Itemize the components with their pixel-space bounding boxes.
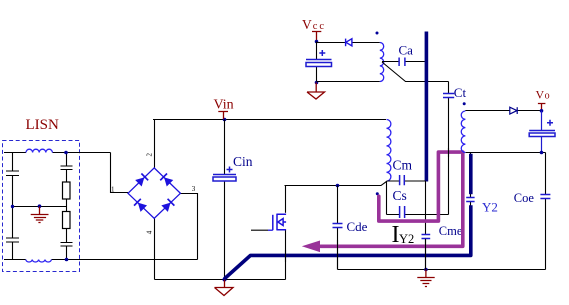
wire Cme branch lower overdraw bbox=[425, 239, 427, 270]
wire bridge right vertex to bottom bbox=[180, 194, 197, 260]
capacitor Coe bbox=[545, 153, 547, 270]
wire bridge top riser bbox=[154, 120, 156, 168]
svg-text:Y2: Y2 bbox=[482, 200, 498, 215]
diode D Vcc bbox=[346, 39, 352, 47]
node earth bbox=[424, 268, 428, 272]
tick Vo bbox=[538, 104, 546, 111]
capacitor Ct bbox=[443, 94, 454, 98]
wire MOSFET source riser bbox=[285, 230, 287, 279]
inductor LISN bottom bbox=[26, 260, 52, 263]
svg-text:Cm: Cm bbox=[393, 158, 413, 173]
capacitor Cin bbox=[213, 174, 236, 176]
wire Cm leads bbox=[387, 180, 426, 182]
transformer aux winding bbox=[380, 43, 384, 82]
wire Cm-Cs right node down to Cme bbox=[425, 181, 427, 270]
capacitor LISN right bottom bbox=[61, 243, 73, 247]
capacitor LISN right top bbox=[61, 166, 73, 170]
svg-text:1: 1 bbox=[111, 186, 115, 194]
arrowhead purple bbox=[302, 241, 320, 253]
node Vcc top bbox=[315, 40, 319, 44]
svg-text:4: 4 bbox=[146, 230, 154, 234]
wire MOSFET source riser overdraw bbox=[285, 250, 287, 262]
capacitor Cs bbox=[400, 206, 405, 218]
svg-text:Cme: Cme bbox=[439, 224, 463, 238]
svg-text:Vin: Vin bbox=[214, 98, 234, 113]
node output cap bottom bbox=[540, 151, 544, 155]
noise path navy vertical (Ca branch) bbox=[425, 32, 429, 182]
capacitor Cme bbox=[422, 235, 431, 239]
transformer primary winding bbox=[387, 120, 391, 182]
node Vin bbox=[223, 118, 227, 122]
wire LISN middle bbox=[13, 206, 67, 208]
polarity dot aux bbox=[376, 32, 379, 35]
wire Cs leads bbox=[387, 214, 449, 216]
svg-text:Ca: Ca bbox=[399, 43, 414, 58]
LISN enclosure dashed box bbox=[3, 141, 80, 272]
wire LISN top line bbox=[4, 152, 111, 154]
diode bridge top-left bbox=[135, 174, 148, 187]
node Cde top bbox=[336, 184, 340, 188]
diode bridge bottom-right bbox=[161, 199, 174, 212]
transformer secondary winding bbox=[461, 111, 465, 153]
wire secondary top to diode bbox=[465, 110, 541, 112]
node LISN mid-left bbox=[11, 205, 14, 208]
wire secondary rail bbox=[466, 152, 546, 154]
node LISN earth tap bbox=[38, 204, 42, 208]
wire Vcc bottom to winding bbox=[317, 81, 380, 83]
ground primary chassis bbox=[215, 280, 234, 296]
svg-text:Vo: Vo bbox=[536, 88, 550, 102]
wire LISN right vertical bbox=[66, 153, 68, 260]
resistor LISN R1 bbox=[63, 182, 71, 199]
capacitor LISN left bottom bbox=[6, 238, 19, 242]
svg-text:Cde: Cde bbox=[347, 219, 368, 234]
node Vo bbox=[540, 109, 544, 113]
node LISN bottom junction bbox=[65, 258, 69, 262]
ground earth symbol bbox=[417, 270, 434, 287]
node LISN top junction bbox=[64, 151, 68, 155]
MOSFET Q1 drain riser bbox=[285, 186, 287, 213]
wire MOSFET gate lead bbox=[251, 229, 268, 231]
inductor LISN top bbox=[26, 149, 52, 152]
wire bridge bottom riser bbox=[154, 218, 156, 279]
wire LISN to bridge corner bbox=[111, 153, 129, 193]
svg-text:2: 2 bbox=[146, 153, 154, 157]
diode bridge top-right bbox=[160, 174, 173, 187]
wire bottom rail primary bbox=[155, 279, 286, 281]
wire aux to Ct bbox=[382, 62, 449, 215]
wire top rail Vin bbox=[153, 119, 386, 121]
capacitor Co output electrolytic bbox=[541, 111, 543, 153]
wire bottom rail secondary bbox=[338, 269, 546, 271]
polarity dot primary bbox=[376, 192, 379, 195]
wire Ca leads bbox=[382, 61, 425, 63]
node Vcc bottom bbox=[315, 81, 319, 85]
wire Vcc to diode to aux winding bbox=[317, 42, 380, 44]
capacitor Cm bbox=[400, 175, 405, 185]
capacitor LISN left top bbox=[6, 171, 19, 176]
svg-text:Ct: Ct bbox=[454, 85, 467, 100]
capacitor Ca bbox=[399, 58, 405, 67]
wire Cde lower overdraw bbox=[337, 240, 339, 270]
svg-text:3: 3 bbox=[192, 185, 196, 193]
wire LISN left vertical bbox=[12, 153, 14, 260]
diode bridge bottom-left bbox=[134, 199, 147, 212]
MOSFET Q1 bbox=[273, 214, 286, 231]
svg-text:Y2: Y2 bbox=[399, 232, 414, 246]
svg-text:Cs: Cs bbox=[393, 188, 407, 203]
capacitor Y2 bbox=[466, 198, 474, 202]
node primary ground bbox=[223, 278, 227, 282]
resistor LISN R2 bbox=[63, 212, 71, 229]
ground Vcc chassis bbox=[307, 83, 325, 100]
svg-text:LISN: LISN bbox=[26, 117, 60, 133]
polarity dot secondary bbox=[463, 102, 466, 105]
tick Vcc bbox=[312, 32, 321, 42]
wire drain to primary winding bbox=[285, 182, 387, 186]
svg-text:Cin: Cin bbox=[233, 154, 253, 169]
svg-text:Coe: Coe bbox=[514, 191, 535, 205]
capacitor Vcc electrolytic bbox=[306, 59, 332, 61]
wire Vcc cap branch bbox=[316, 42, 318, 83]
purple path I_Y2 loop bbox=[321, 152, 463, 246]
diode D output bbox=[510, 107, 517, 114]
capacitor Cde bbox=[337, 186, 339, 270]
wire LISN bottom line bbox=[4, 259, 198, 261]
wire Y2 branch thin bbox=[470, 153, 472, 256]
wire Ct branch overdraw crossing purple bbox=[448, 148, 450, 157]
tick Vin bbox=[218, 112, 228, 120]
noise path navy Y2 to primary ground bbox=[469, 154, 473, 194]
wire Cm-Cs left node bbox=[386, 181, 388, 215]
ground LISN earth bbox=[31, 207, 49, 223]
wire Cin branch bbox=[224, 120, 226, 280]
bridge rectifier diamond bbox=[128, 168, 180, 219]
